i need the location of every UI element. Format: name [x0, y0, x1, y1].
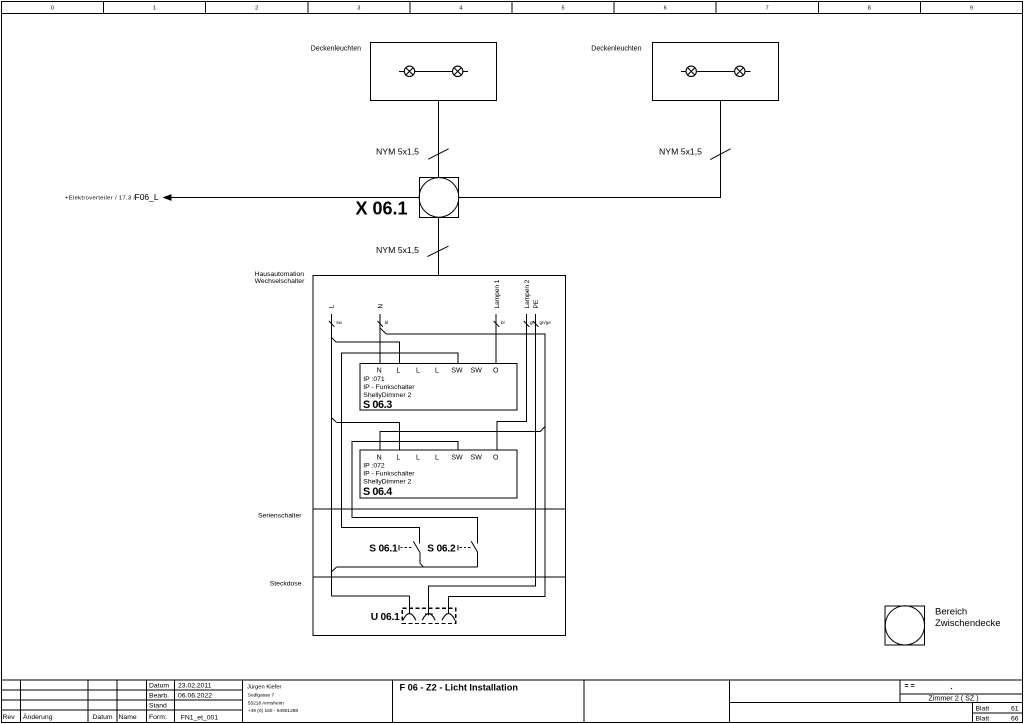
socket pin 3: [442, 597, 455, 621]
header ruler ticks: [104, 2, 921, 14]
svg-text:Form:: Form:: [149, 714, 167, 721]
svg-text:N: N: [377, 454, 382, 461]
svg-text:L: L: [329, 305, 336, 309]
wire S06.3 SW to switch S06.1: [342, 353, 459, 544]
svg-text:06.06.2022: 06.06.2022: [178, 693, 212, 700]
svg-text:S 06.1: S 06.1: [369, 544, 398, 555]
svg-text:X 06.1: X 06.1: [356, 199, 408, 219]
svg-text:Jürgen Kiefer: Jürgen Kiefer: [247, 684, 282, 690]
dimmer module S06.3: [360, 363, 517, 410]
svg-text:PE: PE: [533, 299, 540, 308]
pin labels S06.3: [377, 368, 499, 375]
svg-text:Deckenleuchten: Deckenleuchten: [311, 45, 361, 52]
wire S06.4 SW to switch S06.2: [352, 441, 478, 543]
svg-text:F06_L: F06_L: [135, 192, 159, 202]
wire feed from distribution with arrow: [170, 197, 419, 199]
wire L vertical: [330, 314, 332, 596]
svg-text:Bereich: Bereich: [935, 607, 967, 618]
wire lamp link box2: [681, 70, 750, 72]
svg-text:O: O: [493, 368, 499, 375]
cable marker NYM 5x1,5 left: [428, 149, 448, 159]
svg-text:Bearb.: Bearb.: [149, 693, 169, 700]
svg-text:Name: Name: [119, 714, 137, 721]
cable marker NYM 5x1,5 bottom: [427, 246, 448, 257]
svg-text:L: L: [435, 454, 439, 461]
wire L branch to S06.3: [331, 337, 399, 363]
lamp E2: [453, 66, 463, 76]
divider Serienschalter: [313, 508, 566, 510]
svg-text:SW: SW: [471, 368, 483, 375]
svg-text:N: N: [377, 304, 384, 309]
svg-text:3: 3: [357, 6, 360, 12]
svg-text:55218 Armsheim: 55218 Armsheim: [248, 701, 284, 707]
svg-text:Steckdose: Steckdose: [270, 580, 302, 587]
svg-text:Sedlgasse 7: Sedlgasse 7: [248, 693, 275, 699]
svg-text:U 06.1: U 06.1: [371, 612, 400, 623]
svg-text:NYM 5x1,5: NYM 5x1,5: [659, 147, 702, 157]
svg-text:S 06.4: S 06.4: [363, 486, 392, 498]
svg-text:ShellyDimmer 2: ShellyDimmer 2: [363, 392, 411, 399]
svg-text:L: L: [416, 454, 420, 461]
svg-text:NYM 5x1,5: NYM 5x1,5: [376, 245, 419, 255]
svg-text:SW: SW: [451, 368, 463, 375]
svg-text:Hausautomation: Hausautomation: [255, 271, 305, 278]
svg-text:Lampen 2: Lampen 2: [524, 279, 531, 308]
title block texts: [3, 683, 219, 722]
arrow to Elektroverteiler: [163, 194, 172, 201]
svg-text:L: L: [435, 368, 439, 375]
svg-text:L: L: [416, 368, 420, 375]
svg-text:2: 2: [255, 6, 258, 12]
socket pin 2 PE: [422, 614, 435, 621]
wire L to socket pin: [331, 595, 409, 597]
wire box1 to X06.1: [437, 101, 439, 178]
svg-text:sw: sw: [336, 320, 342, 325]
wire marker gn/ge: [533, 321, 539, 327]
svg-text:ShellyDimmer 2: ShellyDimmer 2: [363, 479, 411, 486]
wire N branch to S06.4: [380, 426, 545, 450]
svg-text:8: 8: [868, 6, 871, 12]
pin labels S06.4: [377, 454, 499, 461]
junction box X06.1: [419, 178, 459, 218]
svg-text:SW: SW: [451, 454, 463, 461]
svg-text:IP :072: IP :072: [363, 463, 385, 470]
divider Steckdose: [313, 576, 566, 578]
svg-text:S 06.2: S 06.2: [427, 544, 456, 555]
svg-text:1: 1: [153, 6, 156, 12]
svg-text:Änderung: Änderung: [23, 713, 53, 721]
lamp E3: [686, 66, 696, 76]
svg-text:4: 4: [459, 6, 462, 12]
wire Lampen 2 vertical: [497, 314, 527, 450]
wire X06.1 to automation box: [437, 217, 439, 275]
svg-text:NYM 5x1,5: NYM 5x1,5: [376, 147, 419, 157]
svg-text:.: .: [951, 684, 953, 691]
svg-text:L: L: [396, 368, 400, 375]
automation area box: [313, 275, 566, 635]
wire PE vertical: [429, 314, 536, 616]
wire marker bl: [378, 321, 384, 327]
svg-text:IP :071: IP :071: [363, 376, 385, 383]
lamp E4: [735, 66, 745, 76]
lamp E1: [404, 66, 414, 76]
svg-text:Rev: Rev: [3, 714, 16, 721]
svg-text:Blatt: Blatt: [976, 705, 990, 712]
svg-text:IP - Funkschalter: IP - Funkschalter: [363, 471, 415, 478]
svg-text:66: 66: [1011, 716, 1019, 723]
svg-text:SW: SW: [471, 454, 483, 461]
legend symbol Bereich Zwischendecke: [885, 606, 924, 645]
switch S06.2: [458, 541, 478, 567]
svg-text:O: O: [493, 454, 499, 461]
svg-text:Blatt: Blatt: [976, 716, 990, 723]
svg-text:br: br: [501, 320, 506, 325]
switch S06.1: [399, 541, 424, 567]
svg-text:Zwischendecke: Zwischendecke: [935, 618, 1000, 629]
svg-text:Serienschalter: Serienschalter: [258, 512, 302, 519]
dimmer module S06.4: [360, 450, 517, 498]
svg-text:Zimmer 2 ( SZ ): Zimmer 2 ( SZ ): [928, 694, 978, 703]
svg-text:6: 6: [664, 6, 667, 12]
wire marker sw: [329, 321, 335, 327]
svg-text:F 06 - Z2 - Licht Installation: F 06 - Z2 - Licht Installation: [400, 683, 519, 693]
svg-text:bl: bl: [385, 320, 389, 325]
svg-text:Datum: Datum: [149, 683, 169, 690]
wire Lampen 1 vertical: [495, 314, 497, 363]
svg-text:gn/ge: gn/ge: [540, 320, 552, 325]
wire N branch main: [380, 328, 545, 614]
ceiling light group box 2: [653, 43, 779, 101]
svg-text:IP - Funkschalter: IP - Funkschalter: [363, 384, 415, 391]
wire L branch to switches: [331, 567, 477, 572]
wire lamp link box1: [399, 70, 468, 72]
svg-text:S 06.3: S 06.3: [363, 399, 392, 411]
svg-text:Stand: Stand: [149, 703, 167, 710]
svg-text:5: 5: [561, 6, 564, 12]
wire L branch to S06.4: [331, 418, 399, 451]
svg-text:7: 7: [766, 6, 769, 12]
svg-text:FN1_et_001: FN1_et_001: [181, 715, 219, 722]
wire N vertical: [379, 314, 381, 363]
svg-text:+Elektroverteiler / 17.3 /: +Elektroverteiler / 17.3 /: [65, 196, 136, 202]
svg-text:+49 (0) 160 - 94901288: +49 (0) 160 - 94901288: [248, 708, 299, 714]
svg-text:61: 61: [1011, 705, 1019, 712]
wire marker br: [494, 321, 500, 327]
svg-text:0: 0: [51, 6, 54, 12]
wire box2 down and to X06.1: [459, 101, 721, 198]
svg-text:L: L: [396, 454, 400, 461]
svg-text:= =: = =: [905, 683, 915, 690]
header column numbers: [51, 6, 973, 12]
svg-text:Deckenleuchten: Deckenleuchten: [591, 45, 641, 52]
svg-text:Wechselschalter: Wechselschalter: [255, 278, 305, 285]
socket pin 1: [403, 596, 416, 620]
ceiling light group box 1: [371, 43, 497, 101]
cable marker NYM 5x1,5 right: [710, 149, 730, 160]
socket outlet U06.1: [402, 608, 456, 623]
svg-text:9: 9: [970, 6, 973, 12]
title block: [2, 680, 1023, 723]
wire marker gr: [524, 321, 530, 327]
svg-text:Datum: Datum: [93, 714, 113, 721]
svg-text:Lampen 1: Lampen 1: [494, 279, 501, 308]
header ruler line: [2, 13, 1023, 15]
svg-text:N: N: [377, 368, 382, 375]
svg-text:23.02.2011: 23.02.2011: [178, 683, 212, 690]
